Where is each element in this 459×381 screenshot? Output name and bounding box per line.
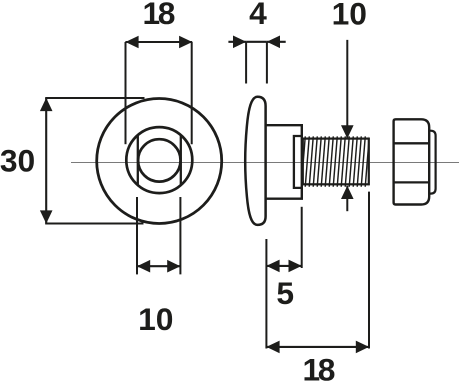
thread hatching [301,136,373,187]
svg-text:4: 4 [249,0,267,31]
dim 10 bottom-left: extension line left [136,197,138,274]
dim 18 top: left arrowhead [125,36,138,49]
svg-text:18: 18 [303,351,335,381]
centerline [71,162,459,164]
nut facet line lower [394,181,430,183]
dim 10 bottom-left: right arrowhead [167,260,180,273]
left flat chord [137,136,139,185]
dim 30 left: top extension line [45,97,144,99]
dim 18 bottom: dimension line [266,346,369,348]
dim 18 top: extension line right [191,42,193,144]
dim 10 bottom-left: left arrowhead [137,260,150,273]
dim 5 bottom: left arrowhead [266,260,279,273]
dim 30 left: top arrowhead [40,98,53,111]
dim 18 bottom: right arrowhead [356,341,369,354]
dim 18 bottom: extension line right [368,192,370,349]
dim 18 top: extension line left [125,42,127,144]
dim 4 top: left tail [228,41,246,43]
svg-text:18: 18 [143,0,175,31]
dim 30 left: dimension line [45,98,47,224]
right flat chord [180,136,182,185]
dim 4 top: extension line right [266,42,268,84]
dim 4 top: extension line left [245,42,247,84]
dim 5 bottom: dimension line [266,265,301,267]
svg-text:10: 10 [138,301,173,337]
shank cylinder (5 wide) [266,125,302,199]
middle circle (dia 18) [126,127,192,193]
dim 4 top: left arrowhead [233,36,246,49]
dim 18 bottom: extension line left (shared) [265,239,267,349]
svg-text:5: 5 [276,275,294,311]
inner circle (dia 10) [138,139,180,181]
svg-text:10: 10 [332,0,367,32]
bolt head (side view) [245,97,265,225]
dim 5 bottom: extension line right [301,207,303,268]
dim 18 top: right arrowhead [179,36,192,49]
nut chamfer tab [429,131,435,194]
dim 10 bottom-left: extension line right [179,197,181,274]
dim 4 top: right tail [267,41,286,43]
dim 10 thread: upper arrowhead [341,125,354,138]
dim 5 bottom: right arrowhead [289,260,302,273]
dim 18 bottom: left arrowhead [266,341,279,354]
dim 18 top: dimension line [125,41,192,43]
nut body [394,119,430,204]
dim 10 thread: lower leader [346,186,348,211]
nut facet line upper [394,142,430,144]
dim 30 left: bottom arrowhead [40,210,53,223]
svg-text:30: 30 [0,143,35,179]
neck collar [294,136,302,188]
dim 30 left: bottom extension line [45,223,143,225]
dim 4 top: right arrowhead [267,36,280,49]
dim 4 top: connecting line [246,41,267,43]
outer circle (head dia 30) [97,99,222,224]
dim 10 bottom-left: dimension line [137,265,180,267]
dim 10 thread: upper leader [346,40,348,138]
thread outline rect [303,139,369,185]
dim 10 thread: lower arrowhead [341,186,354,199]
